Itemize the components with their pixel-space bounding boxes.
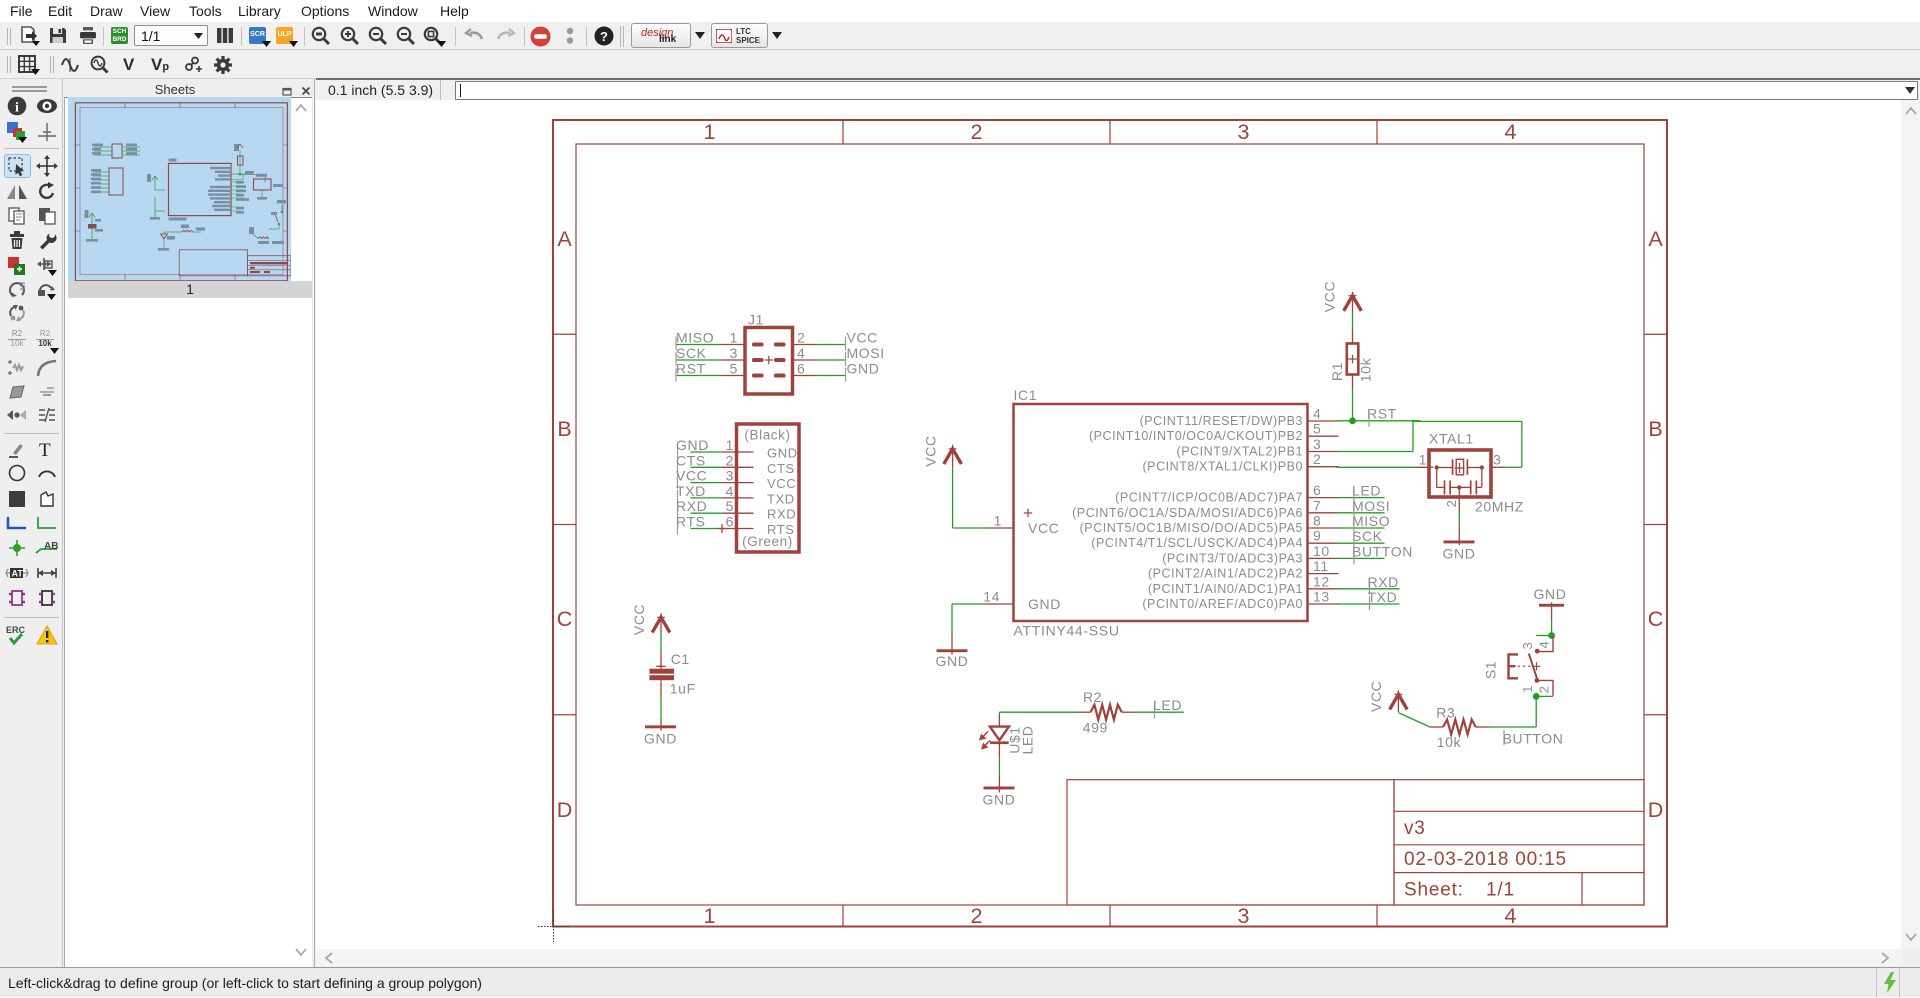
svg-text:TXD: TXD: [767, 491, 795, 506]
svg-text:5: 5: [730, 361, 738, 377]
svg-text:RXD: RXD: [1368, 574, 1399, 590]
svg-text:(PCINT3/T0/ADC3)PA3: (PCINT3/T0/ADC3)PA3: [1162, 551, 1303, 565]
wire LED (IC1): [1337, 490, 1385, 504]
svg-text:3: 3: [1520, 642, 1535, 650]
VCC power symbol (R3): [1390, 690, 1408, 709]
svg-text:2: 2: [1313, 451, 1321, 467]
svg-text:MISO: MISO: [1352, 513, 1390, 529]
svg-text:SCK: SCK: [676, 345, 707, 361]
open/export icon: [19, 26, 41, 46]
IC mini: [169, 163, 232, 215]
wire XTAL1 pin 2 to GND: [1458, 511, 1460, 526]
zoom in: [340, 26, 360, 46]
V icon: [123, 55, 134, 75]
IC1 pin 13 (PA0): [1308, 589, 1339, 605]
XTAL1 pin 3: [1491, 452, 1506, 468]
svg-text:3: 3: [730, 345, 738, 361]
wire VCC (J1 right): [816, 337, 846, 351]
wire MOSI (J1 right): [816, 352, 846, 366]
sheets panel: [64, 79, 314, 967]
wire RXD (IC1): [1337, 581, 1400, 595]
print icon: [79, 26, 98, 45]
svg-text:VCC: VCC: [1368, 681, 1384, 712]
svg-text:(PCINT7/ICP/OC0B/ADC7)PA7: (PCINT7/ICP/OC0B/ADC7)PA7: [1115, 491, 1303, 505]
svg-text:IC1: IC1: [1014, 387, 1038, 403]
J1 pin 4: [793, 345, 817, 361]
wire VCC to R3 (diagonal): [1398, 713, 1430, 727]
resistor R2: [1091, 705, 1122, 720]
svg-text:S1: S1: [1483, 661, 1499, 679]
wire RTS junction cross: [718, 524, 727, 533]
zoom select: [396, 26, 416, 46]
left tool palette: [0, 79, 63, 967]
svg-text:(PCINT9/XTAL2)PB1: (PCINT9/XTAL2)PB1: [1176, 445, 1303, 459]
IC1 pin 8 (PA5): [1308, 513, 1339, 529]
svg-text:9: 9: [1313, 528, 1321, 544]
grid icon: [18, 55, 38, 75]
svg-text:v3: v3: [1404, 818, 1426, 839]
svg-text:?: ?: [600, 29, 608, 44]
svg-text:RST: RST: [676, 361, 706, 377]
sheet combobox 1/1: [134, 25, 208, 46]
J1 pin 2: [793, 330, 817, 346]
svg-text:3: 3: [726, 468, 734, 484]
C1 bottom pin lead: [660, 680, 662, 696]
svg-text:14: 14: [983, 589, 1000, 605]
list area: [64, 97, 312, 967]
GND pin lead (C1): [660, 718, 662, 731]
R2 left pin lead: [1076, 711, 1091, 713]
svg-text:13: 13: [1313, 589, 1330, 605]
wire PB0 to XTAL1 pin 1: [1337, 466, 1415, 468]
svg-text:ERC: ERC: [6, 625, 26, 635]
title block: [1067, 780, 1644, 905]
splitter: [314, 79, 315, 967]
C1 top pin lead: [656, 617, 665, 668]
svg-text:R3: R3: [1436, 704, 1455, 720]
wire GND (FTDI): [678, 444, 723, 458]
svg-text:4: 4: [1313, 406, 1321, 422]
svg-text:LED: LED: [1352, 483, 1381, 499]
GND pin lead: [951, 636, 953, 655]
svg-text:XTAL1: XTAL1: [1429, 431, 1474, 447]
J1 pin 1: [722, 330, 746, 346]
junction S1 pin 1: [1533, 693, 1540, 700]
J1 pin 6: [793, 361, 817, 377]
svg-text:BUTTON: BUTTON: [1352, 543, 1413, 559]
R1 mini: [239, 150, 241, 172]
VCC pin lead: [952, 449, 954, 468]
svg-text:10: 10: [1313, 543, 1330, 559]
svg-text:VCC: VCC: [767, 476, 796, 491]
svg-text:CTS: CTS: [767, 461, 795, 476]
svg-text:VCC: VCC: [631, 604, 647, 635]
canvas h-scrollbar: [316, 949, 1901, 966]
page frame: [75, 103, 287, 281]
svg-text:AB: AB: [44, 541, 58, 552]
svg-text:MOSI: MOSI: [1352, 498, 1390, 514]
connector J1: [745, 328, 793, 395]
wire LED net to label: [1138, 704, 1184, 718]
svg-text:5: 5: [726, 498, 734, 514]
LED U$1 top pin lead: [998, 714, 1000, 727]
svg-text:(PCINT6/OC1A/SDA/MOSI/ADC6)PA6: (PCINT6/OC1A/SDA/MOSI/ADC6)PA6: [1072, 506, 1303, 520]
VCC power symbol (R1): [1344, 292, 1362, 311]
svg-text:CTS: CTS: [676, 452, 706, 468]
toolbar row 1: [0, 22, 1920, 50]
svg-text:1: 1: [704, 904, 716, 928]
C1 mini: [89, 213, 95, 239]
FTDI mini: [109, 168, 123, 195]
FTDI pin 6: [722, 514, 754, 530]
wire R1 to RST: [1352, 389, 1354, 421]
undo: [464, 28, 484, 44]
sine wave icon: [61, 57, 79, 73]
R3 right pin lead: [1476, 726, 1490, 728]
svg-text:B: B: [557, 417, 571, 441]
svg-text:(Black): (Black): [744, 428, 790, 443]
svg-text:GND: GND: [1028, 596, 1061, 612]
VCC power symbol (IC1): [944, 445, 962, 464]
junction S1 pin 4: [1548, 632, 1555, 639]
ULP icon: [276, 27, 293, 44]
junction RST: [1349, 417, 1356, 424]
SCH/BRD icon: [111, 27, 128, 44]
svg-text:7: 7: [1313, 497, 1321, 513]
wire GND to S1: [1551, 620, 1553, 636]
svg-text:6: 6: [1313, 482, 1321, 498]
svg-text:4: 4: [1505, 904, 1517, 928]
svg-text:11: 11: [1313, 558, 1329, 574]
svg-text:R2: R2: [1083, 689, 1102, 705]
IC1 pin 4 (PB3): [1308, 406, 1339, 422]
svg-text:3: 3: [1238, 904, 1250, 928]
IC1 pin 2 (PB0): [1308, 451, 1339, 467]
canvas v-scrollbar: [1901, 100, 1920, 949]
title block mini: [179, 250, 247, 276]
IC1 pin 6 (PA7): [1308, 482, 1339, 498]
svg-text:TXD: TXD: [1368, 589, 1398, 605]
redo: [496, 28, 516, 44]
"1" bar: [68, 281, 312, 298]
svg-text:20MHZ: 20MHZ: [1475, 499, 1524, 515]
IC1 pin 10 (PA3): [1308, 543, 1339, 559]
canvas pane top bar: [316, 78, 1920, 100]
svg-text:(PCINT10/INT0/OC0A/CKOUT)PB2: (PCINT10/INT0/OC0A/CKOUT)PB2: [1089, 429, 1303, 443]
svg-text:10k: 10k: [1358, 357, 1374, 382]
ground symbol (C1): [644, 725, 677, 746]
IC1 pin 7 (PA6): [1308, 497, 1339, 513]
svg-text:MOSI: MOSI: [847, 345, 885, 361]
svg-text:GND: GND: [767, 446, 798, 461]
svg-text:GND: GND: [936, 653, 969, 669]
probe lens icon: [90, 55, 109, 74]
zoom redraw: [423, 26, 445, 46]
svg-text:RTS: RTS: [767, 522, 795, 537]
SCR icon: [249, 27, 266, 44]
J1 pin 5: [722, 361, 746, 377]
svg-text:VCC: VCC: [1028, 520, 1059, 536]
wire BUTTON horizontal: [1490, 727, 1536, 745]
FTDI pin 3: [722, 468, 754, 484]
GND pin lead (LED): [998, 775, 1000, 793]
VCC power symbol (C1): [652, 613, 670, 632]
svg-text:VCC: VCC: [923, 435, 939, 466]
sheets scrollbar: [294, 103, 308, 113]
svg-text:1: 1: [1520, 685, 1535, 693]
svg-text:MISO: MISO: [676, 330, 714, 346]
svg-text:VCC: VCC: [847, 330, 878, 346]
svg-text:GND: GND: [983, 792, 1016, 808]
wire BUTTON vertical: [1535, 696, 1537, 727]
svg-text:1: 1: [1419, 452, 1427, 468]
svg-text:RTS: RTS: [676, 514, 706, 530]
IC1 pin 12 (PA1): [1308, 573, 1339, 589]
wire MISO (IC1): [1337, 520, 1385, 534]
svg-text:3: 3: [1313, 436, 1321, 452]
svg-text:RXD: RXD: [676, 498, 707, 514]
svg-text:1/1: 1/1: [1486, 880, 1515, 901]
wire GND (J1 right): [816, 368, 846, 382]
XTAL mini: [254, 179, 272, 190]
IC1 pin 3 (PB1): [1308, 436, 1339, 452]
svg-text:5: 5: [1313, 421, 1321, 437]
menu bar: [0, 0, 1920, 22]
thumbnail (selected): [68, 97, 291, 281]
R1 bottom pin lead: [1352, 375, 1354, 390]
svg-text:2: 2: [1536, 686, 1551, 694]
wire MOSI (IC1): [1337, 505, 1385, 519]
svg-text:6: 6: [726, 514, 734, 530]
IC1 pin 1 (VCC): [989, 513, 1014, 529]
LED bottom pin lead: [998, 744, 1000, 759]
svg-text:1uF: 1uF: [670, 680, 696, 696]
Vp icon: [151, 55, 169, 75]
capacitor C1: [649, 669, 674, 681]
svg-text:D: D: [557, 798, 573, 822]
zoom out: [368, 26, 388, 46]
main canvas: [316, 100, 1901, 949]
svg-text:4: 4: [1505, 120, 1517, 144]
float/close icons: [282, 86, 293, 96]
XTAL1 pin 1: [1415, 452, 1433, 468]
svg-text:AT: AT: [12, 569, 24, 579]
svg-text:VCC: VCC: [1322, 281, 1338, 312]
svg-text:A: A: [1648, 227, 1663, 251]
resistor R3: [1443, 720, 1476, 735]
svg-text:1: 1: [730, 330, 738, 346]
svg-text:R1: R1: [1329, 362, 1345, 381]
resistor R1: [1347, 344, 1359, 375]
wire TXD (IC1): [1337, 596, 1400, 610]
ground symbol (S1): [1534, 586, 1567, 607]
wire RST (J1 left): [676, 368, 722, 382]
R1 top pin lead: [1352, 296, 1354, 344]
GND pin lead (XTAL1): [1458, 526, 1460, 546]
svg-text:02-03-2018 00:15: 02-03-2018 00:15: [1404, 849, 1567, 870]
svg-text:(PCINT1/AIN0/ADC1)PA1: (PCINT1/AIN0/ADC1)PA1: [1148, 582, 1303, 596]
LED U$1: [980, 727, 1009, 749]
svg-text:SCK: SCK: [1352, 528, 1383, 544]
svg-text:BUTTON: BUTTON: [1503, 731, 1564, 747]
J1 mini: [112, 144, 122, 158]
zoom fit: [311, 26, 331, 46]
wire VCC to R1: [1352, 313, 1354, 331]
svg-text:LED: LED: [1020, 725, 1036, 754]
svg-text:1: 1: [726, 437, 734, 453]
FTDI pin 2: [722, 452, 754, 468]
svg-text:3: 3: [1238, 120, 1250, 144]
svg-text:3: 3: [1493, 452, 1501, 468]
R3 mini: [258, 237, 269, 239]
crystal XTAL1: [1429, 450, 1491, 497]
ground symbol (LED): [983, 787, 1016, 808]
IC1 pin name VCC: [1024, 509, 1060, 536]
LTC SPICE button: [711, 23, 768, 48]
R2 right pin lead: [1122, 711, 1138, 713]
IC1 pin 9 (PA4): [1308, 528, 1339, 544]
XTAL1 pin 2: [1444, 487, 1459, 511]
ground symbol (XTAL1): [1443, 541, 1476, 562]
svg-text:10k: 10k: [1437, 734, 1462, 750]
svg-text:4: 4: [797, 345, 805, 361]
svg-text:2: 2: [971, 120, 983, 144]
IC1 pin 14 (GND): [983, 589, 1014, 605]
svg-text:ATTINY44-SSU: ATTINY44-SSU: [1014, 623, 1120, 639]
wire VCC to IC1 pin 1: [953, 468, 989, 528]
right pin labels mini: [236, 181, 249, 214]
drawing frame: [553, 120, 1667, 927]
svg-text:1: 1: [994, 513, 1002, 529]
wire CTS (FTDI): [678, 459, 723, 473]
IC IC1 box: [1014, 404, 1308, 621]
svg-text:6: 6: [797, 361, 805, 377]
dots icon: [563, 27, 577, 45]
wire TXD (FTDI): [678, 490, 723, 504]
J1 pin 3: [722, 345, 746, 361]
RST + xtal wiring mini: [239, 173, 242, 176]
status bar: [0, 967, 1920, 997]
svg-text:LED: LED: [1153, 697, 1182, 713]
GND mini under IC: [155, 197, 165, 217]
FTDI pin 4: [722, 483, 754, 499]
wire RTS (FTDI): [678, 521, 723, 535]
wire LED net corner: [999, 712, 1076, 714]
FTDI header connector: [737, 424, 800, 552]
svg-text:(PCINT4/T1/SCL/USCK/ADC4)PA4: (PCINT4/T1/SCL/USCK/ADC4)PA4: [1091, 536, 1303, 550]
save icon: [49, 27, 67, 45]
svg-text:499: 499: [1083, 719, 1108, 735]
wire VCC (FTDI): [678, 475, 723, 489]
toolbar row 2: [0, 50, 1920, 79]
wire S1 top stub: [1536, 635, 1551, 637]
svg-text:RST: RST: [1367, 406, 1397, 422]
svg-text:C: C: [1648, 607, 1664, 631]
wire C1 to GND: [660, 697, 662, 718]
VCC mini near IC: [152, 176, 165, 190]
library icon: [216, 27, 234, 44]
svg-text:1: 1: [704, 120, 716, 144]
svg-text:(PCINT2/AIN1/ADC2)PA2: (PCINT2/AIN1/ADC2)PA2: [1148, 567, 1303, 581]
svg-text:VCC: VCC: [676, 468, 707, 484]
svg-text:GND: GND: [676, 437, 709, 453]
svg-text:C1: C1: [671, 651, 690, 667]
svg-text:2: 2: [971, 904, 983, 928]
svg-text:2: 2: [797, 330, 805, 346]
wire IC1 pin 14 to GND: [952, 604, 983, 636]
wire PB1 to XTAL1 pin 3: [1337, 421, 1522, 467]
GND pin lead (S1): [1551, 603, 1553, 621]
stop icon: [530, 26, 551, 47]
svg-text:RXD: RXD: [767, 507, 796, 522]
svg-text:B: B: [1648, 417, 1662, 441]
R3 VCC pin lead: [1397, 694, 1399, 712]
svg-text:D: D: [1648, 798, 1664, 822]
svg-text:C: C: [557, 607, 573, 631]
svg-text:2: 2: [726, 452, 734, 468]
FTDI pin 1: [722, 437, 754, 453]
wire LED to GND: [998, 759, 1000, 775]
link pin icon: [184, 56, 203, 74]
svg-text:(PCINT11/RESET/DW)PB3: (PCINT11/RESET/DW)PB3: [1140, 414, 1303, 428]
svg-text:4: 4: [726, 483, 734, 499]
design link button: [631, 23, 691, 48]
svg-text:i: i: [15, 101, 19, 116]
IC1 pin 11 (PA2): [1308, 558, 1339, 574]
svg-text:GND: GND: [847, 361, 880, 377]
wire MISO (J1 left): [676, 337, 722, 351]
FTDI pin 5: [722, 498, 754, 514]
LED mini: [164, 232, 182, 248]
svg-text:TXD: TXD: [676, 483, 706, 499]
gear icon: [213, 55, 233, 75]
svg-text:8: 8: [1313, 513, 1321, 529]
svg-text:(PCINT5/OC1B/MISO/DO/ADC5)PA5: (PCINT5/OC1B/MISO/DO/ADC5)PA5: [1080, 521, 1303, 535]
svg-text:GND: GND: [1534, 586, 1567, 602]
wire VCC to C1: [660, 635, 662, 653]
wire S1 bottom stub: [1536, 695, 1553, 697]
svg-text:(PCINT8/XTAL1/CLKI)PB0: (PCINT8/XTAL1/CLKI)PB0: [1142, 460, 1303, 474]
wire SCK (J1 left): [676, 352, 722, 366]
cursor crosshair at frame origin: [538, 911, 569, 942]
help icon: [594, 26, 614, 46]
wire RST: [1337, 413, 1421, 427]
svg-text:12: 12: [1313, 573, 1330, 589]
svg-text:A: A: [557, 227, 572, 251]
IC1 pin 5 (PB2): [1308, 421, 1339, 437]
svg-text:J1: J1: [748, 312, 764, 328]
switch S1: [1509, 636, 1554, 696]
wire BUTTON (IC1): [1337, 550, 1385, 564]
svg-text:GND: GND: [644, 730, 677, 746]
svg-text:4: 4: [1536, 641, 1551, 649]
ground symbol (IC1): [936, 649, 969, 669]
wire RXD (FTDI): [678, 505, 723, 519]
svg-text:Sheet:: Sheet:: [1404, 880, 1464, 901]
R3 left pin lead: [1430, 726, 1443, 728]
svg-text:2: 2: [1444, 500, 1459, 508]
svg-text:(PCINT0/AREF/ADC0)PA0: (PCINT0/AREF/ADC0)PA0: [1142, 597, 1303, 611]
S1 mini: [281, 211, 284, 214]
svg-text:GND: GND: [1443, 546, 1476, 562]
wire SCK (IC1): [1337, 535, 1385, 549]
